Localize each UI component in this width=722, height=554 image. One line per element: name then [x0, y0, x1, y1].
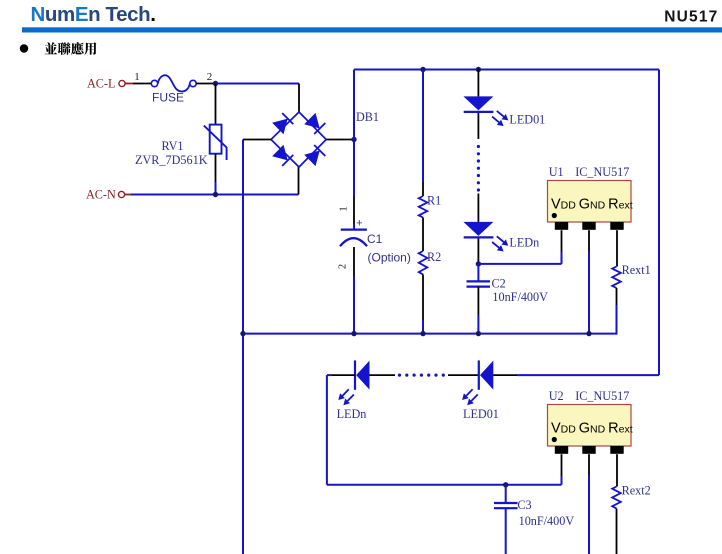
- svg-text:1: 1: [339, 206, 350, 211]
- svg-text:C3: C3: [517, 498, 531, 512]
- svg-text:U2: U2: [549, 389, 564, 403]
- svg-text:AC-N: AC-N: [86, 188, 116, 202]
- svg-text:IC_NU517: IC_NU517: [575, 165, 629, 179]
- svg-text:LEDn: LEDn: [509, 236, 539, 250]
- svg-text:1: 1: [134, 71, 140, 83]
- svg-text:NU517: NU517: [664, 9, 718, 26]
- svg-text:+: +: [356, 218, 362, 230]
- svg-text:10nF/400V: 10nF/400V: [492, 290, 548, 304]
- svg-text:NumEn Tech.: NumEn Tech.: [31, 3, 156, 26]
- svg-text:R2: R2: [427, 250, 441, 264]
- svg-text:VDD GND Rext: VDD GND Rext: [551, 197, 633, 213]
- svg-text:ZVR_7D561K: ZVR_7D561K: [135, 153, 208, 167]
- svg-text:U1: U1: [549, 165, 564, 179]
- svg-text:AC-L: AC-L: [87, 77, 115, 91]
- svg-text:(Option): (Option): [368, 251, 411, 265]
- svg-text:VDD GND Rext: VDD GND Rext: [551, 421, 633, 437]
- svg-text:2: 2: [338, 264, 349, 269]
- svg-text:RV1: RV1: [161, 139, 183, 153]
- svg-text:Rext2: Rext2: [622, 484, 651, 498]
- svg-text:Rext1: Rext1: [622, 263, 651, 277]
- svg-text:2: 2: [207, 71, 213, 83]
- svg-text:10nF/400V: 10nF/400V: [519, 514, 575, 528]
- svg-text:LED01: LED01: [509, 113, 545, 127]
- svg-text:LED01: LED01: [463, 407, 499, 421]
- svg-text:IC_NU517: IC_NU517: [575, 389, 629, 403]
- svg-text:FUSE: FUSE: [152, 91, 184, 105]
- svg-text:C2: C2: [492, 277, 506, 291]
- svg-text:LEDn: LEDn: [337, 407, 367, 421]
- svg-text:DB1: DB1: [356, 110, 379, 124]
- svg-text:C1: C1: [367, 232, 383, 246]
- svg-text:R1: R1: [427, 194, 441, 208]
